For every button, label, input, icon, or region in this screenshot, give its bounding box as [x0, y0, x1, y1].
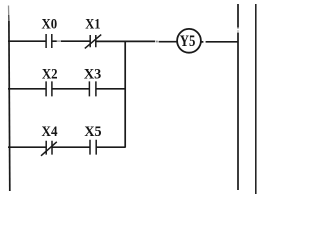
wire rung2 to junction: [96, 88, 126, 90]
svg-text:X0: X0: [41, 17, 57, 33]
contact X1 (NC): [90, 35, 96, 47]
svg-text:X2: X2: [42, 66, 58, 82]
wire rung3 left segment: [8, 146, 46, 148]
wire rung2 middle segment: [52, 88, 89, 90]
right page border: [255, 4, 257, 194]
wire coil to right rail: [201, 41, 238, 43]
X4 slash: [41, 142, 57, 156]
svg-text:X4: X4: [42, 124, 59, 140]
wire rung3 to junction: [96, 146, 125, 148]
X1 slash: [85, 35, 101, 49]
svg-text:X3: X3: [84, 66, 101, 82]
svg-text:X1: X1: [85, 17, 100, 33]
coil Y5 circle: [177, 29, 201, 53]
wire rung1 left segment: [8, 40, 46, 42]
wire rung1 middle segment: [52, 40, 90, 42]
left power rail: [8, 6, 10, 16]
contact X3: [89, 81, 96, 96]
wire rung1 to coil: [96, 40, 178, 42]
contact X4 (NC): [46, 141, 52, 155]
wire rung3 middle segment: [52, 146, 90, 148]
wire rung2 left segment: [8, 88, 46, 90]
svg-text:X5: X5: [84, 124, 101, 140]
contact X2: [46, 81, 52, 96]
contact X5: [90, 140, 96, 155]
right power rail: [237, 4, 239, 190]
svg-text:Y5: Y5: [180, 33, 196, 50]
junction vertical wire: [124, 41, 126, 147]
contact X0: [46, 34, 52, 48]
